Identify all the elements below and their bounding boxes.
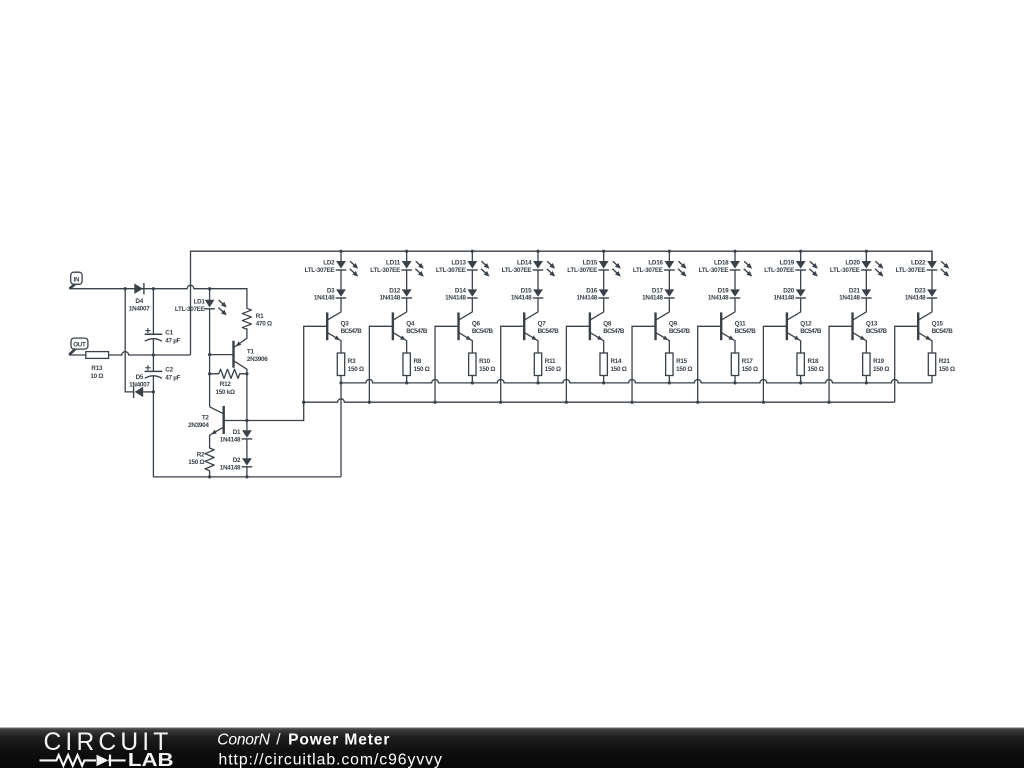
transistor T2 emitter [210,427,224,447]
svg-text:R14: R14 [610,358,622,365]
svg-text:Q11: Q11 [735,321,747,328]
svg-text:47 µF: 47 µF [165,337,180,344]
svg-text:150 Ω: 150 Ω [610,366,626,373]
transistor T2 2N3904 NPN [210,407,224,414]
node R17 emitter rail junction [733,381,736,384]
wire D2 to ground bus [246,467,248,477]
LED LD20 LTL-307EE [865,251,867,261]
svg-text:R3: R3 [348,358,356,365]
wire LD14 to D15 [537,270,539,289]
svg-text:150 Ω: 150 Ω [188,459,204,466]
wire T2 base net [224,402,304,420]
wire R14 to emitter rail [603,376,605,383]
svg-text:LD15: LD15 [583,259,598,266]
LED LD2 LTL-307EE [340,251,342,261]
svg-text:1N4148: 1N4148 [774,294,795,301]
node R18 emitter rail junction [799,381,802,384]
footer bar [0,728,1024,768]
transistor Q11 BC547B NPN [722,298,735,320]
LED LD13 LTL-307EE [471,251,473,261]
svg-text:BC547B: BC547B [341,328,363,335]
svg-text:2N3906: 2N3906 [247,356,268,363]
logo diode symbol [97,755,109,767]
wire LD18 to D19 [734,270,736,289]
wire R18 to emitter rail [800,376,802,383]
wire LD2 to D3 [340,270,342,289]
svg-text:LTL-307EE: LTL-307EE [699,267,729,274]
wire Q7 base [501,326,525,402]
node R19 emitter rail junction [865,381,868,384]
resistor R8 150 Ohm [403,353,410,376]
svg-text:R12: R12 [220,381,232,388]
svg-text:LD13: LD13 [451,259,466,266]
svg-text:BC547B: BC547B [538,328,560,335]
node D2 ground junction [245,475,248,478]
wire Q13 base [829,326,853,402]
transistor Q8 BC547B NPN [590,298,603,320]
node T1 base junction [208,353,211,356]
svg-text:1N4148: 1N4148 [220,464,241,471]
node Q6 base rail junction [433,401,436,404]
svg-text:LTL-307EE: LTL-307EE [896,267,926,274]
wire C1 branch [152,289,154,392]
capacitor C2 47uF [145,370,163,372]
svg-text:R8: R8 [413,358,421,365]
svg-text:LTL-307EE: LTL-307EE [305,267,335,274]
svg-text:LD22: LD22 [911,259,926,266]
svg-text:BC547B: BC547B [406,328,428,335]
wire R10 to emitter rail [471,376,473,383]
svg-text:C2: C2 [165,367,173,374]
svg-text:1N4148: 1N4148 [380,294,401,301]
resistor R1 470 Ohm [242,307,251,330]
svg-text:150 Ω: 150 Ω [939,366,955,373]
transistor Q7 BC547B NPN [525,298,538,320]
wire LD13 to D14 [471,270,473,289]
transistor Q6 BC547B NPN [459,298,472,320]
svg-text:BC547B: BC547B [669,328,691,335]
svg-text:LD16: LD16 [648,259,663,266]
svg-text:150 kΩ: 150 kΩ [216,389,236,396]
wire T1 collector to D1 [246,374,248,431]
LED LD11 LTL-307EE [406,251,408,261]
node R15 emitter rail junction [668,381,671,384]
svg-text:1N4148: 1N4148 [905,294,926,301]
wire LD11 to D12 [406,270,408,289]
wire V+ top rail [191,251,933,355]
svg-text:R2: R2 [197,451,205,458]
svg-text:R15: R15 [676,358,688,365]
svg-text:1N4007: 1N4007 [129,381,150,388]
svg-text:LAB: LAB [128,750,174,768]
wire D1 to D2 [246,439,248,458]
svg-text:1N4148: 1N4148 [314,294,335,301]
wire Q9 base [632,326,656,402]
wire R15 to emitter rail [668,376,670,383]
wire Q4 base [369,326,393,402]
svg-text:http://circuitlab.com/c96yvvy: http://circuitlab.com/c96yvvy [219,752,442,768]
resistor R2 150 Ohm [205,447,214,477]
wire emitter rail to ground bus [340,383,342,477]
node LD1 junction [208,287,211,290]
resistor R3 150 Ohm [337,353,344,376]
svg-text:1N4148: 1N4148 [708,294,729,301]
wire LD15 to D16 [603,270,605,289]
svg-text:R11: R11 [545,358,556,365]
svg-text:1N4148: 1N4148 [445,294,466,301]
node IN-D4 junction [124,287,127,290]
svg-text:47 µF: 47 µF [165,375,180,382]
wire R11 to emitter rail [537,376,539,383]
port OUT [71,338,88,349]
svg-text:150 Ω: 150 Ω [742,366,758,373]
resistor R21 150 Ohm [928,353,935,376]
svg-text:Q12: Q12 [800,321,812,328]
diode D12 1N4148 [402,289,412,296]
svg-text:Q13: Q13 [866,321,878,328]
wire R17 to emitter rail [734,376,736,383]
svg-text:LD20: LD20 [845,259,860,266]
node R11 emitter rail junction [536,381,539,384]
resistor R11 150 Ohm [534,353,541,376]
LED LD1 LTL-307EE [209,289,211,300]
wire base rail [304,399,895,402]
wire D4 anode drop [125,289,133,392]
svg-text:IN: IN [74,277,80,284]
svg-text:2N3904: 2N3904 [188,422,209,429]
svg-text:150 Ω: 150 Ω [348,366,364,373]
svg-text:R17: R17 [742,358,754,365]
svg-text:Q3: Q3 [341,321,350,328]
wire Q11 base [698,326,722,402]
diode D15 1N4148 [533,289,543,296]
svg-text:R18: R18 [807,358,819,365]
svg-text:T2: T2 [202,414,210,421]
node Q7 base rail junction [499,401,502,404]
svg-text:ConorN/Power Meter: ConorN/Power Meter [217,732,389,749]
svg-text:C1: C1 [165,330,173,337]
wire R3 to emitter rail [340,376,342,383]
svg-text:BC547B: BC547B [866,328,888,335]
svg-text:BC547B: BC547B [932,328,954,335]
diode D20 1N4148 [796,289,806,296]
svg-text:R19: R19 [873,358,885,365]
resistor R12 150k [210,369,247,378]
wire Q12 base [763,326,787,402]
resistor R14 150 Ohm [600,353,607,376]
capacitor C1 47uF [145,333,163,335]
diode D1 1N4148 [242,430,252,437]
svg-text:D5: D5 [136,374,144,381]
node C2-D5 junction [152,390,155,393]
wire Q15 base [895,326,919,402]
node Q12 base rail junction [762,401,765,404]
diode D5 1N4007 [135,387,144,397]
svg-text:LD14: LD14 [517,259,532,266]
svg-text:LD11: LD11 [386,259,401,266]
svg-text:LTL-307EE: LTL-307EE [567,267,597,274]
svg-text:LD1: LD1 [194,298,206,305]
node Q9 base rail junction [630,401,633,404]
transistor Q3 BC547B NPN [328,298,341,320]
node R12 right junction [245,372,248,375]
wire R8 to emitter rail [406,376,408,383]
svg-text:1N4007: 1N4007 [129,306,150,313]
diode D3 1N4148 [336,289,346,296]
svg-text:LTL-307EE: LTL-307EE [764,267,794,274]
svg-text:150 Ω: 150 Ω [676,366,692,373]
wire Q8 base [566,326,590,402]
LED LD19 LTL-307EE [800,251,802,261]
svg-text:1N4148: 1N4148 [839,294,860,301]
diode D2 1N4148 [242,458,252,465]
svg-text:Q4: Q4 [406,321,415,328]
wire LD16 to D17 [668,270,670,289]
node Q8 base rail junction [565,401,568,404]
svg-text:OUT: OUT [73,342,86,349]
diode D17 1N4148 [664,289,674,296]
svg-text:LTL-307EE: LTL-307EE [175,306,205,313]
svg-text:150 Ω: 150 Ω [479,366,495,373]
wire Q6 base [435,326,459,402]
svg-text:150 Ω: 150 Ω [413,366,429,373]
wire ground bus bottom [153,392,341,477]
transistor Q13 BC547B NPN [853,298,866,320]
svg-text:Q15: Q15 [932,321,944,328]
diode D4 1N4007 [134,284,143,294]
svg-text:D4: D4 [135,298,143,305]
svg-text:LTL-307EE: LTL-307EE [502,267,532,274]
svg-text:1N4148: 1N4148 [220,436,241,443]
svg-text:BC547B: BC547B [800,328,822,335]
svg-text:D2: D2 [233,457,241,464]
svg-text:1N4148: 1N4148 [642,294,663,301]
transistor Q4 BC547B NPN [393,298,406,320]
svg-text:LTL-307EE: LTL-307EE [830,267,860,274]
node R10 emitter rail junction [471,381,474,384]
node Q3 base rail junction [302,401,305,404]
node Q13 base rail junction [827,401,830,404]
svg-text:Q8: Q8 [603,321,612,328]
svg-text:D1: D1 [233,429,241,436]
diode D23 1N4148 [927,289,937,296]
resistor R18 150 Ohm [797,353,804,376]
svg-text:T1: T1 [247,348,255,355]
wire LD19 to D20 [800,270,802,289]
wire R21 to emitter rail [931,376,933,383]
svg-text:LD2: LD2 [323,259,335,266]
svg-text:LTL-307EE: LTL-307EE [370,267,400,274]
wire OUT net [69,352,191,355]
transistor Q9 BC547B NPN [656,298,669,320]
wire Q3 base [304,326,328,402]
svg-text:R1: R1 [256,313,264,320]
wire IN net [69,285,247,307]
port IN [71,272,82,284]
svg-text:1N4148: 1N4148 [577,294,598,301]
wire LD1 cathode chain [209,309,211,407]
svg-text:BC547B: BC547B [603,328,625,335]
node Q4 base rail junction [368,401,371,404]
node R14 emitter rail junction [602,381,605,384]
resistor R17 150 Ohm [731,353,738,376]
svg-text:Q6: Q6 [472,321,481,328]
node R8 emitter rail junction [405,381,408,384]
diode D14 1N4148 [467,289,477,296]
LED LD22 LTL-307EE [931,251,933,261]
svg-text:R21: R21 [939,358,951,365]
transistor Q15 BC547B NPN [919,298,932,320]
resistor R10 150 Ohm [469,353,476,376]
svg-text:BC547B: BC547B [472,328,494,335]
transistor T1 2N3906 PNP [234,328,247,347]
node T2 base crossing [245,419,248,422]
svg-text:150 Ω: 150 Ω [873,366,889,373]
logo schematic squiggle [40,755,97,766]
LED LD16 LTL-307EE [668,251,670,261]
wire D5 anode to C2 [143,391,153,393]
LED LD18 LTL-307EE [734,251,736,261]
svg-text:BC547B: BC547B [735,328,757,335]
svg-text:LD18: LD18 [714,259,729,266]
svg-text:150 Ω: 150 Ω [807,366,823,373]
LED LD15 LTL-307EE [603,251,605,261]
node base rail start [302,401,305,404]
diode D16 1N4148 [599,289,609,296]
resistor R19 150 Ohm [863,353,870,376]
resistor R15 150 Ohm [666,353,673,376]
wire R19 to emitter rail [865,376,867,383]
svg-text:150 Ω: 150 Ω [545,366,561,373]
node R2 ground junction [208,475,211,478]
wire LD20 to D21 [865,270,867,289]
svg-text:LTL-307EE: LTL-307EE [633,267,663,274]
svg-text:R13: R13 [91,365,103,372]
wire emitter rail [341,379,932,382]
svg-text:LD19: LD19 [780,259,795,266]
svg-text:1N4148: 1N4148 [511,294,532,301]
svg-text:470 Ω: 470 Ω [256,321,272,328]
LED LD14 LTL-307EE [537,251,539,261]
diode D19 1N4148 [730,289,740,296]
diode D21 1N4148 [861,289,871,296]
svg-text:LTL-307EE: LTL-307EE [436,267,466,274]
resistor R13 10 Ohm [86,352,109,359]
svg-text:10 Ω: 10 Ω [90,373,103,380]
svg-text:R10: R10 [479,358,491,365]
svg-text:Q9: Q9 [669,321,678,328]
transistor Q12 BC547B NPN [787,298,800,320]
svg-text:Q7: Q7 [538,321,547,328]
node D4-C1 junction [152,287,155,290]
node C1-R13 junction [152,353,155,356]
node Q11 base rail junction [696,401,699,404]
wire LD22 to D23 [931,270,933,289]
node R3 emitter rail junction [339,381,342,384]
node R12 left junction [208,372,211,375]
